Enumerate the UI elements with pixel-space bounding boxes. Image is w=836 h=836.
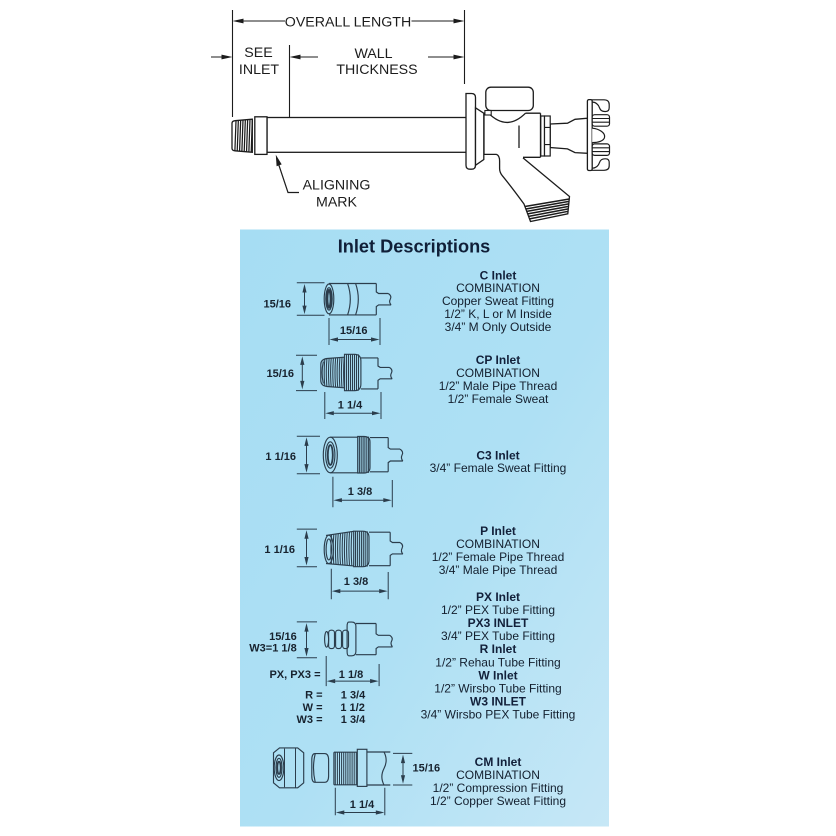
svg-text:COMBINATION: COMBINATION <box>456 537 540 551</box>
svg-text:COMBINATION: COMBINATION <box>456 281 540 295</box>
svg-text:1/2” Copper Sweat Fitting: 1/2” Copper Sweat Fitting <box>430 794 566 808</box>
svg-text:CM Inlet: CM Inlet <box>475 755 522 769</box>
svg-text:1 1/2: 1 1/2 <box>340 702 364 714</box>
svg-text:OVERALL LENGTH: OVERALL LENGTH <box>285 14 411 30</box>
svg-text:INLET: INLET <box>239 62 280 78</box>
svg-text:SEE: SEE <box>244 45 272 61</box>
svg-text:W3 =: W3 = <box>297 714 323 726</box>
svg-text:15/16: 15/16 <box>413 762 441 774</box>
svg-text:1 3/4: 1 3/4 <box>341 690 366 702</box>
svg-text:W3=1 1/8: W3=1 1/8 <box>249 643 296 655</box>
svg-text:PX, PX3 =: PX, PX3 = <box>269 669 320 681</box>
svg-text:PX Inlet: PX Inlet <box>476 590 520 604</box>
svg-text:1 3/4: 1 3/4 <box>341 714 366 726</box>
svg-text:1/2” Female Pipe Thread: 1/2” Female Pipe Thread <box>432 550 565 564</box>
svg-text:1/2” K, L or M Inside: 1/2” K, L or M Inside <box>444 307 552 321</box>
svg-text:1 1/16: 1 1/16 <box>265 451 296 463</box>
svg-text:Inlet Descriptions: Inlet Descriptions <box>338 237 491 257</box>
svg-text:C Inlet: C Inlet <box>480 268 517 282</box>
svg-text:WALL: WALL <box>354 46 392 62</box>
svg-text:1/2” Male Pipe Thread: 1/2” Male Pipe Thread <box>439 379 558 393</box>
svg-text:PX3 INLET: PX3 INLET <box>468 616 529 630</box>
svg-text:1/2” Compression Fitting: 1/2” Compression Fitting <box>433 781 564 795</box>
svg-text:1 1/4: 1 1/4 <box>350 799 375 811</box>
svg-text:1 1/16: 1 1/16 <box>264 544 295 556</box>
svg-text:1 1/8: 1 1/8 <box>339 669 363 681</box>
svg-text:15/16: 15/16 <box>340 325 368 337</box>
svg-text:1/2” Rehau Tube Fitting: 1/2” Rehau Tube Fitting <box>435 655 560 669</box>
svg-text:3/4” Male Pipe Thread: 3/4” Male Pipe Thread <box>439 563 558 577</box>
svg-text:CP Inlet: CP Inlet <box>476 353 520 367</box>
svg-text:1/2” PEX Tube Fitting: 1/2” PEX Tube Fitting <box>441 603 555 617</box>
svg-text:W Inlet: W Inlet <box>478 668 517 682</box>
svg-text:Copper Sweat Fitting: Copper Sweat Fitting <box>442 294 554 308</box>
svg-text:P Inlet: P Inlet <box>480 524 516 538</box>
svg-text:W =: W = <box>303 702 323 714</box>
svg-text:1/2” Wirsbo Tube Fitting: 1/2” Wirsbo Tube Fitting <box>434 681 561 695</box>
svg-text:15/16: 15/16 <box>269 631 297 643</box>
svg-text:15/16: 15/16 <box>266 368 294 380</box>
svg-text:1 3/8: 1 3/8 <box>344 576 368 588</box>
svg-text:R Inlet: R Inlet <box>480 642 517 656</box>
svg-text:MARK: MARK <box>316 194 358 210</box>
svg-text:R =: R = <box>305 690 322 702</box>
svg-text:15/16: 15/16 <box>263 299 291 311</box>
svg-text:ALIGNING: ALIGNING <box>303 177 371 193</box>
svg-text:3/4” PEX Tube Fitting: 3/4” PEX Tube Fitting <box>441 629 555 643</box>
svg-text:THICKNESS: THICKNESS <box>336 62 417 78</box>
svg-text:3/4” Female Sweat Fitting: 3/4” Female Sweat Fitting <box>430 461 567 475</box>
svg-text:C3 Inlet: C3 Inlet <box>476 448 519 462</box>
svg-text:1 1/4: 1 1/4 <box>338 399 363 411</box>
svg-text:COMBINATION: COMBINATION <box>456 768 540 782</box>
svg-text:3/4” M Only Outside: 3/4” M Only Outside <box>445 320 552 334</box>
svg-text:1 3/8: 1 3/8 <box>348 486 372 498</box>
svg-text:W3 INLET: W3 INLET <box>470 694 527 708</box>
svg-text:1/2” Female Sweat: 1/2” Female Sweat <box>448 392 549 406</box>
svg-text:COMBINATION: COMBINATION <box>456 366 540 380</box>
svg-text:3/4” Wirsbo PEX Tube Fitting: 3/4” Wirsbo PEX Tube Fitting <box>421 707 576 721</box>
